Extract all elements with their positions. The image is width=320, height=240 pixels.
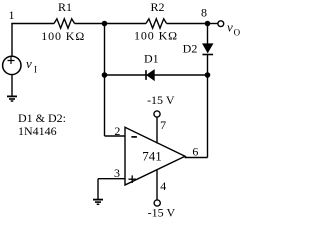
wire junction A to R2: [105, 23, 147, 25]
wire D1 line right segment: [154, 74, 207, 76]
wire pin 3 down to ground: [97, 179, 99, 199]
svg-text:D1 & D2:: D1 & D2:: [18, 111, 66, 125]
ground (pin 3): [93, 199, 103, 201]
wire top-left vertical from source to top rail: [11, 24, 13, 57]
resistor R2: [146, 19, 167, 28]
node junction A (top of left rail): [102, 21, 108, 27]
node 8 junction dot: [205, 21, 211, 27]
wire pin 4: [156, 170, 158, 200]
wire top horizontal left segment to R1: [11, 23, 54, 25]
diode D2 (pointing down): [203, 44, 213, 53]
svg-text:6: 6: [192, 144, 198, 158]
svg-text:-15 V: -15 V: [148, 205, 176, 219]
plus sign inside source: [8, 57, 15, 64]
svg-text:-15 V: -15 V: [147, 93, 175, 107]
svg-text:O: O: [234, 27, 240, 37]
pin 4 terminal open circle: [154, 200, 160, 206]
wire node 8 down to D2: [207, 24, 209, 45]
resistor R1: [54, 19, 75, 28]
output terminal vO open circle: [218, 21, 224, 27]
svg-text:3: 3: [114, 166, 120, 180]
wire source bottom to ground: [11, 75, 13, 96]
plus sign (non-inverting input): [129, 175, 137, 183]
diode D1 (pointing left): [145, 70, 147, 80]
wire R2 to node 8: [167, 23, 208, 25]
wire node 8 to output terminal: [208, 23, 219, 25]
svg-text:v: v: [26, 56, 32, 71]
svg-text:I: I: [34, 64, 37, 74]
svg-text:4: 4: [160, 179, 166, 193]
svg-text:1N4146: 1N4146: [18, 124, 57, 138]
wire pin 3 horizontal: [98, 178, 125, 180]
left rail wire: junction A down to pin 2 corner: [104, 24, 106, 137]
wire R1 to junction A: [75, 23, 105, 25]
svg-text:2: 2: [114, 124, 120, 138]
node junction B (left rail at D1 line): [102, 72, 108, 78]
svg-text:100 KΩ: 100 KΩ: [41, 29, 85, 43]
svg-text:v: v: [227, 20, 233, 35]
svg-text:100 KΩ: 100 KΩ: [134, 29, 178, 43]
ground (source): [7, 95, 17, 97]
svg-text:D1: D1: [144, 51, 159, 65]
svg-text:741: 741: [142, 148, 162, 163]
wire D2 to junction C and down to output corner: [207, 54, 209, 157]
svg-text:R2: R2: [150, 0, 164, 14]
svg-text:1: 1: [9, 8, 15, 22]
minus sign (inverting input): [131, 136, 137, 138]
op-amp U1 741 triangle: [125, 127, 185, 185]
svg-text:R1: R1: [58, 0, 72, 14]
wire pin 2 horizontal: [105, 135, 126, 137]
voltage source vI: [3, 56, 21, 74]
wire D1 line left segment: [105, 74, 146, 76]
svg-text:D2: D2: [183, 42, 198, 56]
node junction C (right rail at D1 line): [205, 72, 211, 78]
wire output pin 6: [185, 156, 208, 157]
wire pin 7: [156, 117, 158, 143]
svg-text:7: 7: [160, 118, 166, 132]
pin 7 terminal open circle: [154, 111, 160, 117]
svg-text:8: 8: [201, 5, 207, 19]
